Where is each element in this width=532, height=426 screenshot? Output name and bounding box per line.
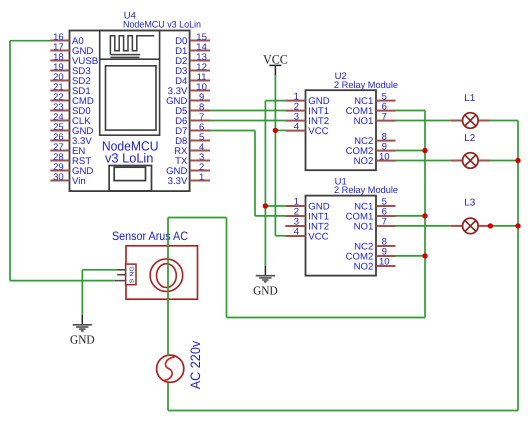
svg-text:3.3V: 3.3V (168, 176, 188, 187)
svg-text:NO1: NO1 (354, 221, 374, 232)
svg-text:v3 LoLin: v3 LoLin (105, 151, 153, 166)
svg-text:30: 30 (53, 172, 64, 183)
svg-text:7: 7 (382, 111, 387, 122)
svg-text:NO2: NO2 (354, 156, 374, 167)
svg-text:7: 7 (382, 217, 387, 228)
svg-text:AC 220v: AC 220v (188, 341, 203, 390)
svg-text:NodeMCU v3 LoLin: NodeMCU v3 LoLin (123, 19, 201, 30)
svg-text:2 Relay Module: 2 Relay Module (334, 80, 398, 91)
svg-text:VCC: VCC (308, 126, 328, 137)
svg-text:Vin: Vin (72, 176, 86, 187)
svg-text:10: 10 (379, 257, 390, 268)
svg-text:NO2: NO2 (354, 261, 374, 272)
svg-text:1: 1 (199, 172, 204, 183)
svg-text:S NG: S NG (130, 266, 136, 283)
svg-text:VCC: VCC (308, 231, 328, 242)
svg-text:GND: GND (70, 333, 95, 347)
svg-text:4: 4 (294, 121, 299, 132)
svg-text:Sensor Arus AC: Sensor Arus AC (112, 229, 188, 243)
svg-text:VCC: VCC (263, 52, 288, 66)
svg-text:10: 10 (379, 151, 390, 162)
svg-text:4: 4 (294, 227, 299, 238)
svg-text:NO1: NO1 (354, 116, 374, 127)
svg-text:2 Relay Module: 2 Relay Module (334, 185, 398, 196)
svg-text:L1: L1 (464, 93, 475, 104)
svg-text:L3: L3 (464, 198, 475, 209)
svg-text:GND: GND (253, 284, 278, 298)
svg-text:L2: L2 (464, 133, 475, 144)
